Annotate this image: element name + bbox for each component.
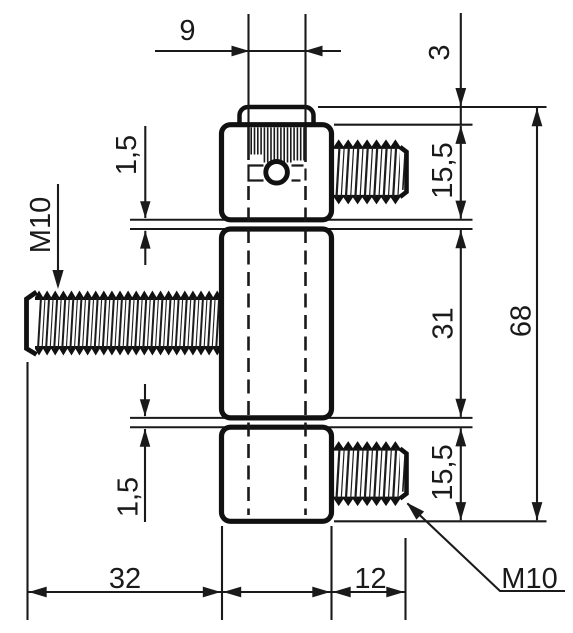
bottom-right stud - sawtooth thread crests xyxy=(334,441,402,451)
svg-text:M10: M10 xyxy=(25,197,57,253)
dimension 15,5 bottom - line and arrows xyxy=(460,428,462,520)
dimension 32 - line and arrows xyxy=(28,591,223,593)
bottom extension line at body left edge xyxy=(221,526,223,620)
clamp slot hidden rectangle xyxy=(249,166,264,181)
dimension 9 - dimension line and arrows xyxy=(155,50,248,52)
knurled/hatched insert area in top block xyxy=(251,128,304,163)
bottom extension line at body right edge xyxy=(330,526,332,620)
hidden bore line left (dashed) xyxy=(247,127,250,160)
extension line cap-top (for 3 and 68) xyxy=(318,106,547,108)
M10 left leader arrow pointing at rod thread xyxy=(57,184,59,286)
svg-text:15,5: 15,5 xyxy=(427,142,459,198)
svg-text:15,5: 15,5 xyxy=(427,444,459,500)
body width dimension line (unlabeled) with outward arrows xyxy=(222,591,332,593)
groove 1 lower line (extension) xyxy=(130,228,473,230)
bottom block of body xyxy=(222,427,332,521)
svg-text:1,5: 1,5 xyxy=(113,477,145,517)
top-right stud - flank lines xyxy=(337,146,401,197)
groove 1 upper line (extension) xyxy=(130,219,473,221)
dimension 68 - line and arrows xyxy=(536,108,538,520)
svg-text:9: 9 xyxy=(179,15,195,47)
bottom extension line at stud end xyxy=(404,538,406,620)
left rod chamfered end xyxy=(27,292,37,355)
top cap (connector bump) xyxy=(240,107,314,135)
svg-text:32: 32 xyxy=(109,563,141,595)
svg-text:68: 68 xyxy=(506,305,538,337)
svg-text:M10: M10 xyxy=(501,563,557,595)
groove 2 upper line (extension) xyxy=(130,417,473,419)
middle body section xyxy=(222,229,332,418)
bottom-right stud - flank lines xyxy=(337,448,401,499)
top block of body xyxy=(222,125,332,220)
left threaded rod M10 - thread teeth (top and bottom sawtooth bands) xyxy=(35,291,222,301)
svg-text:3: 3 xyxy=(424,44,456,60)
extension lines for dimension 9 (bore width) crossing cap xyxy=(247,14,249,125)
bottom-right stud - chamfered end cap xyxy=(400,449,407,499)
extension line body-bottom (for 68) xyxy=(334,520,547,522)
extension line block-top (for 3 and 15,5) xyxy=(334,124,473,126)
groove 2 lower line (extension) xyxy=(130,426,473,428)
dimension 15,5 top - line and arrows xyxy=(460,126,462,219)
svg-text:1,5: 1,5 xyxy=(111,135,143,175)
svg-text:12: 12 xyxy=(354,563,386,595)
dimension 31 - line and arrows xyxy=(460,230,462,417)
M10 bottom-right leader arrow pointing at stud chamfer xyxy=(408,504,566,592)
bottom extension line at rod left end xyxy=(26,362,28,620)
dimension 1,5 top - arrows outside groove xyxy=(144,126,146,218)
dimension 3 - leader from above with arrow xyxy=(460,13,462,125)
left rod thread flank lines xyxy=(38,297,223,349)
top-right stud - chamfered end cap xyxy=(400,147,407,197)
top-right stud - sawtooth thread crests xyxy=(334,139,402,149)
svg-text:31: 31 xyxy=(428,307,460,339)
dimension 1,5 bottom - arrows outside groove xyxy=(144,384,146,416)
dimension 12 - line and arrows xyxy=(332,591,406,593)
screw hole circle xyxy=(266,162,288,184)
hidden bore line right (dashed) xyxy=(304,127,307,162)
